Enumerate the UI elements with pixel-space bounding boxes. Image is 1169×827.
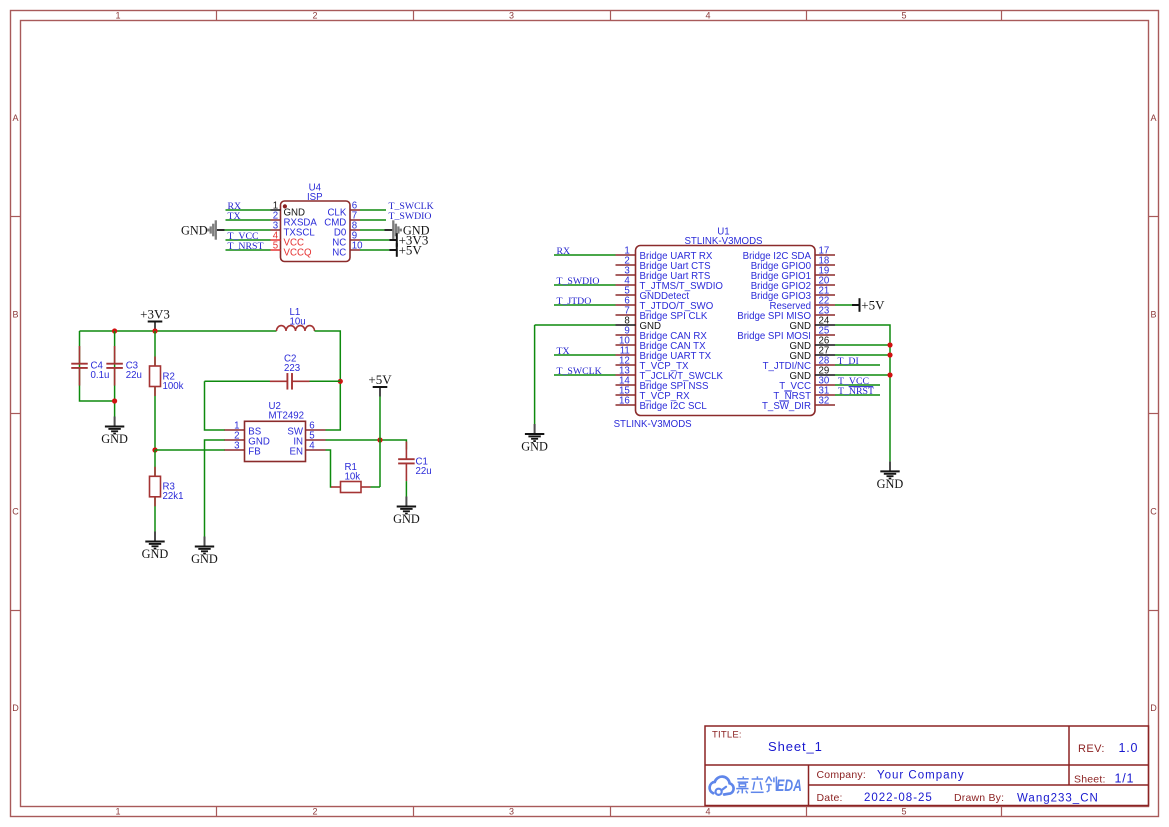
svg-text:16: 16	[619, 396, 630, 407]
svg-text:Sheet_1: Sheet_1	[768, 739, 823, 754]
U2 pin 5 (IN)	[293, 431, 325, 448]
capacitor C2	[270, 373, 310, 390]
svg-text:TX: TX	[557, 346, 570, 357]
svg-text:Drawn By:: Drawn By:	[954, 792, 1004, 804]
U1 pin 12 (T_VCP_TX)	[616, 356, 690, 373]
title block	[705, 726, 1149, 806]
wire net T_SWCLK to U1 pin 13	[554, 374, 616, 376]
U2 pin 6 (SW)	[287, 421, 325, 438]
wire L1 to C2/U2 SW	[315, 331, 341, 430]
U4 pin 5 (VCCQ)	[271, 241, 312, 259]
svg-text:D: D	[1150, 703, 1157, 713]
wire net TX to U4 pin 2	[226, 219, 271, 221]
U4 pin 9 (NC)	[332, 231, 360, 249]
U1 pin 7 (Bridge SPI CLK)	[616, 306, 708, 323]
U4 pin 6 (CLK)	[327, 201, 360, 219]
U2 pin 4 (EN)	[290, 441, 326, 458]
U1 pin 17 (Bridge I2C SDA)	[743, 246, 835, 263]
wire IN node down to R1	[379, 440, 381, 487]
U1 pin 1 (Bridge UART RX)	[616, 246, 713, 263]
U1 pin 20 (Bridge GPIO2)	[751, 276, 835, 293]
U1 pin 31 (T_NRST)	[773, 386, 835, 403]
svg-text:GND: GND	[877, 477, 904, 491]
overline on net label T_NRST	[849, 386, 874, 388]
wire U1 pin 22 to +5V	[835, 304, 852, 306]
wire +3V3 rail top	[80, 330, 277, 332]
U4 pin 4 (VCC)	[271, 231, 304, 249]
wire net T_SWDIO to U1 pin 4	[554, 284, 616, 286]
ground below U1 pin 8	[521, 424, 548, 454]
wire U2 EN to R1 left	[326, 450, 332, 487]
U1 pin 24 (GND)	[789, 316, 835, 333]
svg-text:FB: FB	[248, 447, 260, 458]
power +3V3 rail symbol	[140, 306, 170, 331]
svg-text:T_NRST: T_NRST	[228, 241, 264, 252]
wire R3 branch	[154, 450, 156, 532]
svg-text:32: 32	[819, 396, 830, 407]
wire U2 IN to C1/+5V node	[326, 440, 407, 450]
U4 pin 8 (D0)	[334, 221, 360, 239]
wire U1 pin 8 GND horizontal	[535, 324, 616, 326]
U1 pin 8 (GND)	[616, 316, 662, 333]
svg-text:STLINK-V3MODS: STLINK-V3MODS	[684, 236, 763, 247]
JLC EDA logo	[710, 776, 802, 795]
svg-text:ISP: ISP	[307, 192, 323, 203]
wire U1 pin 8 GND vertical	[534, 325, 536, 424]
power +5V at U1 pin 22	[852, 298, 885, 313]
svg-text:T_JTDO: T_JTDO	[557, 296, 592, 307]
junction +3V3 rail / C3	[112, 328, 117, 333]
svg-text:GND: GND	[142, 547, 169, 561]
wire net T_VCC to U4 pin 4	[226, 239, 271, 241]
U1 pin 11 (Bridge UART TX)	[616, 346, 712, 363]
wire U4 pin 6 to net T_SWCLK	[360, 209, 386, 211]
net label T_JTDO (U1)	[557, 296, 592, 307]
svg-text:+5V: +5V	[861, 298, 885, 313]
junction FB node	[152, 447, 157, 452]
wire U4 pin 7 to net T_SWDIO	[360, 219, 386, 221]
junction SW node / C2	[338, 379, 343, 384]
svg-text:223: 223	[284, 363, 300, 374]
svg-text:1.0: 1.0	[1119, 741, 1139, 755]
wire U1 pin 28 to net T_DI	[835, 364, 880, 366]
svg-text:GND: GND	[101, 432, 128, 446]
wire FB node to U2 pin 3	[155, 449, 225, 451]
svg-text:1: 1	[115, 10, 120, 20]
net label T_VCC (U1)	[838, 376, 869, 387]
svg-text:2: 2	[312, 10, 317, 20]
U1 pin 22 (Reserved)	[770, 296, 835, 313]
U1 pin 26 (GND)	[789, 336, 835, 353]
svg-text:4: 4	[705, 806, 710, 816]
U4 pin 1 anchor dot	[283, 204, 287, 208]
U1 pin 19 (Bridge GPIO1)	[751, 266, 835, 283]
U1 pin 16 (Bridge I2C SCL)	[616, 396, 708, 413]
net label T_NRST (U1)	[838, 386, 874, 397]
wire U1 pin 31 to net T_NRST	[835, 394, 880, 396]
svg-text:GND: GND	[181, 223, 208, 237]
junction GND bus pin 26	[887, 342, 892, 347]
svg-text:1: 1	[115, 806, 120, 816]
wire net T_JTDO to U1 pin 6	[554, 304, 616, 306]
wire net TX to U1 pin 11	[554, 354, 616, 356]
svg-text:100k: 100k	[163, 381, 184, 392]
ground below C3	[101, 417, 128, 447]
svg-text:22u: 22u	[416, 466, 432, 477]
svg-text:T_SWCLK: T_SWCLK	[557, 366, 602, 377]
U1 pin 6 (T_JTDO/T_SWO)	[616, 296, 714, 313]
net label T_SWDIO (U4)	[389, 211, 432, 222]
wire C2 to U2 pin 1 BS	[205, 381, 226, 430]
U1 pin 4 (T_JTMS/T_SWDIO)	[616, 276, 724, 293]
svg-text:D: D	[12, 703, 19, 713]
U1 pin 2 (Bridge Uart CTS)	[616, 256, 712, 273]
svg-text:Your Company: Your Company	[877, 769, 965, 781]
svg-text:5: 5	[901, 10, 906, 20]
wire U1 pin 27 to GND bus	[835, 354, 890, 356]
wire U4 pin 9 to +3V3	[360, 239, 389, 241]
junction C4/C3 bottom	[112, 398, 117, 403]
net label RX (U4)	[228, 201, 242, 212]
svg-text:4: 4	[309, 441, 315, 452]
connector U4 ISP body	[281, 183, 351, 262]
U4 pin 3 (TXSCL)	[271, 221, 316, 239]
U1 pin 30 (T_VCC)	[779, 376, 835, 393]
U1 pin 9 (Bridge CAN RX)	[616, 326, 708, 343]
resistor R3	[150, 467, 161, 507]
svg-text:Bridge I2C SCL: Bridge I2C SCL	[640, 401, 708, 412]
svg-text:T_SWDIO: T_SWDIO	[557, 276, 600, 287]
wire GND to U4 pin 3	[225, 229, 271, 231]
svg-text:2: 2	[312, 806, 317, 816]
net label T_SWDIO (U1)	[557, 276, 600, 287]
svg-text:+5V: +5V	[368, 372, 392, 387]
svg-text:1/1: 1/1	[1115, 772, 1135, 786]
svg-text:22k1: 22k1	[163, 491, 184, 502]
U2 pin 3 (FB)	[225, 441, 261, 458]
svg-text:5: 5	[273, 241, 278, 252]
wire C4 branch left	[80, 331, 115, 401]
wire C3 branch	[114, 331, 116, 417]
svg-text:EN: EN	[290, 447, 303, 458]
U1 pin 3 (Bridge Uart RTS)	[616, 266, 711, 283]
wire U1 pin 29 to GND bus	[835, 374, 890, 376]
U1 pin 18 (Bridge GPIO0)	[751, 256, 835, 273]
svg-text:T_DI: T_DI	[838, 356, 859, 367]
svg-text:MT2492: MT2492	[269, 411, 305, 422]
wire R1 right to +5V branch	[371, 486, 381, 488]
svg-text:STLINK-V3MODS: STLINK-V3MODS	[614, 419, 693, 430]
ground below U2 pin 2	[191, 537, 218, 567]
wire net RX to U4 pin 1	[226, 209, 271, 211]
wire U4 pin 10 to +5V	[360, 249, 389, 251]
svg-text:T_SW_DIR: T_SW_DIR	[762, 401, 811, 412]
power +5V above U2	[368, 372, 392, 397]
svg-text:TITLE:: TITLE:	[712, 730, 742, 741]
power +5V at U4 pin 10	[389, 243, 422, 258]
U1 pin 10 (Bridge CAN TX)	[616, 336, 707, 353]
U1 pin 28 (T_JTDI/NC)	[763, 356, 835, 373]
svg-text:4: 4	[705, 10, 710, 20]
svg-text:A: A	[12, 113, 18, 123]
net label T_SWCLK (U1)	[557, 366, 602, 377]
U1 pin 23 (Bridge SPI MISO)	[737, 306, 835, 323]
U1 pin 31 active-low overline on NRST	[784, 390, 792, 392]
wire R2 branch	[154, 331, 156, 450]
U4 pin 10 (NC)	[332, 241, 363, 259]
U1 pin 15 (T_VCP_RX)	[616, 386, 691, 403]
IC U1 STLINK-V3MODS body	[636, 226, 816, 415]
svg-text:NC: NC	[332, 248, 346, 259]
svg-text:Wang233_CN: Wang233_CN	[1017, 792, 1099, 804]
power +3V3 at U4 pin 9	[389, 233, 428, 248]
wire U1 pin 30 to net T_VCC	[835, 384, 880, 386]
net label T_DI	[838, 356, 859, 367]
U2 pin 2 (GND)	[225, 431, 270, 448]
inductor L1	[277, 326, 315, 331]
svg-text:3: 3	[509, 806, 514, 816]
svg-text:Date:: Date:	[817, 792, 843, 804]
svg-text:RX: RX	[557, 246, 571, 257]
net label T_NRST (U4)	[228, 241, 264, 252]
wire U1 pin 26 to GND bus	[835, 344, 890, 346]
svg-text:B: B	[12, 310, 18, 320]
U1 pin 13 (T_JCLK/T_SWCLK)	[616, 366, 724, 383]
svg-text:REV:: REV:	[1078, 743, 1105, 755]
regulator U2 MT2492 body	[245, 401, 306, 461]
U1 pin 5 (GNDDetect)	[616, 286, 690, 303]
svg-text:Sheet:: Sheet:	[1074, 774, 1106, 786]
U1 pin 14 (Bridge SPI NSS)	[616, 376, 709, 393]
wire +5V to IN node	[379, 397, 381, 441]
svg-text:C: C	[1150, 507, 1157, 517]
wire C2 left	[205, 380, 271, 382]
svg-text:+3V3: +3V3	[140, 306, 170, 321]
capacitor C4	[71, 346, 88, 386]
svg-text:TX: TX	[228, 211, 241, 222]
junction GND bus pin 29	[887, 372, 892, 377]
svg-text:10u: 10u	[290, 317, 306, 328]
U1 pin 29 (GND)	[789, 366, 835, 383]
U2 pin 1 (BS)	[225, 421, 262, 438]
svg-text:22u: 22u	[126, 370, 142, 381]
wire U4 pin 8 to GND	[360, 229, 385, 231]
net label RX (U1)	[557, 246, 571, 257]
U4 pin 7 (CMD)	[324, 211, 360, 229]
net label TX (U1)	[557, 346, 570, 357]
svg-text:VCCQ: VCCQ	[284, 248, 312, 259]
resistor R2	[150, 357, 161, 397]
resistor R1	[331, 482, 371, 493]
net label T_SWCLK (U4)	[389, 201, 434, 212]
svg-text:EDA: EDA	[776, 777, 802, 795]
U1 pin 32 active-low overline on SW	[780, 400, 790, 402]
svg-text:2022-08-25: 2022-08-25	[864, 792, 933, 804]
U1 pin 27 (GND)	[789, 346, 835, 363]
ground flag right of U4	[385, 220, 430, 239]
svg-text:0.1u: 0.1u	[91, 370, 110, 381]
ground flag left of U4	[181, 220, 225, 239]
capacitor C1	[398, 442, 415, 482]
wire U2 pin 2 to GND	[205, 440, 226, 537]
U4 pin 1 (GND)	[271, 201, 306, 219]
junction GND bus pin 27	[887, 352, 892, 357]
capacitor C3	[106, 346, 123, 386]
net label TX (U4)	[228, 211, 241, 222]
wire U1 pin 24 GND bus	[835, 325, 890, 461]
wire C1 to GND	[405, 481, 407, 496]
net label T_VCC (U4)	[228, 231, 259, 242]
junction +3V3 rail / R2	[152, 328, 157, 333]
svg-text:T_SWDIO: T_SWDIO	[389, 211, 432, 222]
U1 pin 21 (Bridge GPIO3)	[751, 286, 835, 303]
svg-text:GND: GND	[521, 440, 548, 454]
wire net RX to U1 pin 1	[554, 254, 616, 256]
svg-text:3: 3	[509, 10, 514, 20]
ground below U1 right bus	[877, 461, 904, 491]
ground below C1	[393, 497, 420, 527]
svg-text:C: C	[12, 507, 19, 517]
svg-text:GND: GND	[191, 552, 218, 566]
svg-text:B: B	[1150, 310, 1156, 320]
U4 pin 2 (RXSDA)	[271, 211, 318, 229]
svg-text:A: A	[1150, 113, 1156, 123]
svg-text:10k: 10k	[345, 471, 361, 482]
wire net T_NRST to U4 pin 5	[226, 249, 271, 251]
U1 pin 25 (Bridge SPI MOSI)	[737, 326, 835, 343]
U1 pin 32 (T_SW_DIR)	[762, 396, 835, 413]
svg-text:+5V: +5V	[399, 243, 423, 258]
svg-text:GND: GND	[393, 512, 420, 526]
wire C2 right to SW node	[310, 380, 341, 382]
svg-text:Company:: Company:	[817, 769, 866, 781]
svg-text:3: 3	[234, 441, 239, 452]
ground below R3	[142, 532, 169, 562]
svg-text:T_NRST: T_NRST	[838, 386, 874, 397]
svg-text:5: 5	[901, 806, 906, 816]
junction IN node	[377, 437, 382, 442]
